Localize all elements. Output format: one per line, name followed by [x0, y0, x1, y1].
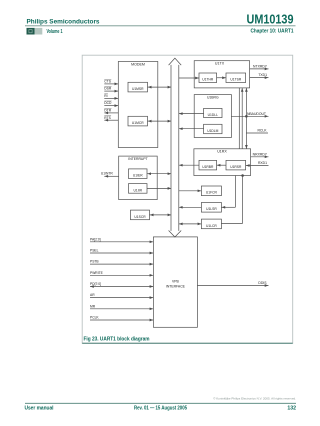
vpb pin PWRITE — [90, 274, 153, 276]
svg-text:U1MCR: U1MCR — [132, 121, 144, 125]
svg-text:PCLK: PCLK — [90, 316, 99, 320]
register U1RSR — [226, 160, 246, 170]
pin RCLK — [246, 132, 268, 134]
svg-text:PA[2:0]: PA[2:0] — [90, 237, 101, 241]
pin RXD1 — [246, 165, 269, 167]
svg-text:U1BRG: U1BRG — [207, 96, 219, 100]
register U1THR — [199, 73, 217, 83]
register U1LSR — [201, 203, 221, 213]
wire baud clock vertical — [245, 88, 247, 149]
bus top arrowhead — [169, 58, 182, 65]
register U1TSR — [226, 73, 246, 83]
svg-text:U1RX: U1RX — [217, 150, 227, 154]
register U1SCR — [131, 210, 150, 220]
wire U1IIR-bus — [147, 187, 171, 189]
header rule — [25, 25, 296, 27]
wire U1RSR to U1RBR — [217, 164, 226, 166]
svg-text:U1LSR: U1LSR — [206, 207, 217, 211]
wire U1RBR to bus — [179, 164, 199, 166]
svg-text:U1DLL: U1DLL — [208, 113, 218, 117]
vpb pin AR — [90, 297, 153, 299]
svg-text:CTS: CTS — [104, 80, 111, 84]
figure frame — [82, 55, 293, 343]
svg-text:UM10139: UM10139 — [247, 11, 294, 26]
pin NRXRDY — [251, 156, 269, 158]
svg-text:PSTB: PSTB — [90, 260, 99, 264]
svg-text:U1TSR: U1TSR — [230, 78, 241, 82]
wire U1TX-U1RX line2 — [241, 88, 243, 149]
footer rule — [25, 402, 296, 404]
block INTERRUPT — [119, 156, 158, 200]
svg-text:MR: MR — [90, 304, 96, 308]
wire U1THR to U1TSR — [217, 77, 226, 79]
svg-text:NBAUDOUT: NBAUDOUT — [247, 112, 266, 116]
register U1LCR — [201, 219, 221, 229]
block U1TX — [194, 61, 249, 88]
wire bus to U1THR — [179, 77, 199, 79]
pin NTXRDY — [250, 68, 269, 70]
svg-text:NTXRDY: NTXRDY — [253, 64, 268, 68]
wire U1RX to U1LSR — [234, 176, 236, 208]
svg-text:User manual: User manual — [25, 406, 55, 412]
wire U1LCR-bus — [179, 223, 202, 225]
modem pin CTS — [104, 83, 118, 85]
svg-text:132: 132 — [287, 406, 296, 412]
svg-text:U1IER: U1IER — [133, 174, 143, 178]
wire U1DLL to bus — [179, 113, 204, 115]
modem pin DSR — [104, 90, 118, 92]
vpb pin MR — [90, 308, 153, 310]
svg-text:U1THR: U1THR — [202, 78, 214, 82]
wire U1IER-bus — [147, 173, 171, 175]
wire U1RX to U1LCR — [242, 176, 244, 224]
modem pin RI — [104, 97, 118, 99]
vpb pin PSTB — [90, 263, 153, 265]
svg-text:RCLK: RCLK — [257, 129, 267, 133]
register U1MSR — [128, 82, 148, 92]
svg-text:Volume 1: Volume 1 — [47, 29, 63, 35]
logo dark square — [27, 28, 35, 35]
svg-text:RXD1: RXD1 — [258, 161, 267, 165]
svg-text:PWRITE: PWRITE — [90, 271, 104, 275]
register U1DLL — [204, 108, 222, 117]
svg-text:U1RBR: U1RBR — [202, 165, 214, 169]
bus right line — [178, 65, 180, 231]
block U1RX — [194, 149, 251, 176]
modem pin DCD — [104, 105, 118, 107]
svg-text:NRXRDY: NRXRDY — [253, 152, 268, 156]
svg-text:RI: RI — [104, 94, 107, 98]
vpb pin PA[2:0] — [90, 241, 153, 243]
svg-text:© Koninklijke Philips Electron: © Koninklijke Philips Electronics N.V. 2… — [213, 397, 296, 401]
wire U1SCR-bus — [150, 214, 172, 216]
bus left line — [170, 65, 172, 231]
block MODEM — [118, 62, 158, 148]
junction U1RX bottom — [241, 174, 244, 177]
block VPB INTERFACE — [153, 237, 197, 327]
wire U1DLM to bus — [179, 128, 204, 130]
logo light square — [35, 28, 43, 35]
wire U1MSR-bus — [148, 86, 172, 88]
pin U1INTR — [104, 175, 118, 177]
svg-text:DDIS: DDIS — [258, 281, 267, 285]
register U1IIR — [129, 184, 148, 194]
svg-text:PD[7:0]: PD[7:0] — [90, 282, 101, 286]
pin DDIS — [197, 285, 268, 287]
svg-text:U1IIR: U1IIR — [134, 188, 143, 192]
pin TXD1 — [250, 77, 269, 79]
register U1IER — [129, 169, 148, 179]
svg-text:U1FCR: U1FCR — [206, 191, 218, 195]
svg-text:Philips Semiconductors: Philips Semiconductors — [27, 19, 100, 26]
wire bus to U1FCR — [179, 190, 202, 192]
svg-text:Fig 23. UART1 block diagram: Fig 23. UART1 block diagram — [84, 336, 151, 342]
register U1DLM — [204, 124, 222, 133]
register U1MCR — [128, 116, 148, 126]
svg-text:AR: AR — [90, 293, 95, 297]
svg-text:DSR: DSR — [104, 87, 112, 91]
bus bottom arrowhead — [169, 231, 182, 238]
svg-text:U1INTR: U1INTR — [101, 171, 114, 175]
svg-text:INTERFACE: INTERFACE — [166, 285, 186, 289]
block U1BRG — [194, 95, 231, 138]
vpb pin PCLK — [90, 319, 153, 321]
svg-text:DCD: DCD — [104, 101, 112, 105]
pin NBAUDOUT — [231, 115, 268, 117]
svg-text:MODEM: MODEM — [131, 63, 145, 67]
logo inner mark — [29, 30, 32, 33]
svg-text:Rev. 01 — 15 August 2005: Rev. 01 — 15 August 2005 — [134, 406, 187, 412]
junction NBAUDOUT — [245, 115, 248, 118]
svg-text:VPB: VPB — [172, 280, 180, 284]
svg-text:TXD1: TXD1 — [258, 73, 267, 77]
svg-text:U1RSR: U1RSR — [230, 165, 242, 169]
svg-text:Chapter 10: UART1: Chapter 10: UART1 — [251, 29, 294, 35]
svg-text:U1DLM: U1DLM — [207, 129, 218, 133]
svg-text:U1LCR: U1LCR — [206, 224, 217, 228]
figure caption rule — [82, 342, 293, 344]
register U1RBR — [199, 160, 217, 170]
svg-text:U1SCR: U1SCR — [134, 215, 146, 219]
wire U1TX-U1RX line1 — [238, 88, 240, 149]
register U1FCR — [201, 186, 221, 196]
svg-text:INTERRUPT: INTERRUPT — [128, 157, 147, 161]
svg-text:U1TX: U1TX — [215, 62, 225, 66]
svg-text:PSEL: PSEL — [90, 249, 99, 253]
vpb pin PD[7:0] — [90, 286, 153, 288]
wire U1LSR to bus — [179, 206, 202, 208]
modem pin DTR — [104, 112, 118, 114]
wire U1MCR-bus — [148, 120, 172, 122]
svg-text:U1MSR: U1MSR — [132, 87, 144, 91]
modem pin RTS — [104, 119, 118, 121]
vpb pin PSEL — [90, 252, 153, 254]
